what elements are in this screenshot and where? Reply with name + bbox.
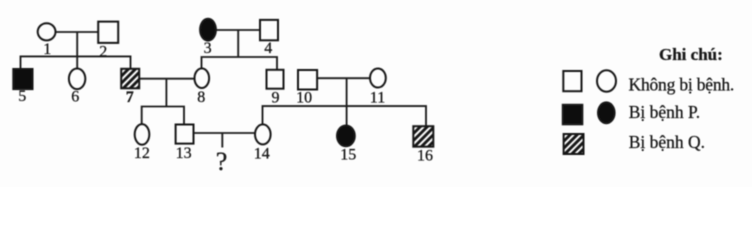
svg-text:2: 2 (99, 44, 107, 61)
svg-text:8: 8 (197, 89, 205, 106)
svg-text:15: 15 (340, 147, 356, 164)
svg-text:14: 14 (254, 146, 270, 163)
svg-text:Không bị bệnh.: Không bị bệnh. (629, 75, 735, 95)
svg-text:?: ? (216, 147, 228, 176)
svg-text:4: 4 (264, 40, 272, 57)
svg-text:Bị bệnh Q.: Bị bệnh Q. (629, 132, 705, 152)
svg-text:16: 16 (417, 148, 433, 165)
svg-text:10: 10 (296, 90, 312, 107)
svg-text:3: 3 (204, 40, 212, 57)
svg-text:5: 5 (18, 88, 26, 105)
svg-text:12: 12 (134, 145, 150, 162)
svg-text:Ghi chú:: Ghi chú: (659, 45, 723, 64)
svg-text:13: 13 (176, 145, 192, 162)
svg-text:11: 11 (370, 90, 385, 107)
svg-text:Bị bệnh P.: Bị bệnh P. (629, 102, 700, 122)
svg-text:7: 7 (126, 89, 134, 106)
svg-text:1: 1 (43, 41, 51, 58)
svg-text:6: 6 (71, 89, 79, 106)
svg-text:9: 9 (272, 90, 280, 107)
